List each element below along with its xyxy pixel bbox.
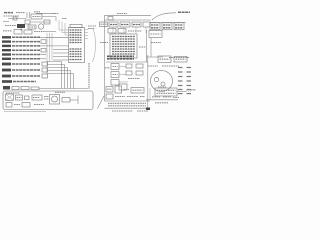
- signal label row 7: [2, 62, 48, 66]
- wire: [36, 12, 56, 14]
- wire: [149, 88, 151, 100]
- block U5: [24, 30, 32, 34]
- dense row under controller: [107, 56, 134, 59]
- label blob top: [34, 11, 40, 13]
- bus wires to MCU: [46, 37, 69, 60]
- signal label row 3: [2, 45, 46, 47]
- right vertical border: [147, 55, 149, 108]
- right block A: [149, 31, 162, 38]
- bottom border: [104, 107, 150, 109]
- top small box pair 2: [174, 57, 187, 63]
- terminal pair row 7: [178, 93, 191, 95]
- terminal strip above MCU: [70, 24, 82, 27]
- text rows lower right c: [173, 97, 179, 99]
- signal label row 9: [2, 74, 48, 78]
- bottom row marks: [124, 89, 130, 91]
- wire: [77, 96, 79, 105]
- text row A: [148, 65, 158, 67]
- wire: [42, 17, 56, 21]
- wire with inline part: [8, 17, 26, 20]
- text row in PSU: [6, 92, 20, 94]
- MCU right pin stubs: [85, 30, 89, 39]
- figure label: [4, 13, 26, 16]
- label bottom right: [155, 102, 168, 104]
- end blob: [146, 108, 150, 111]
- signal label row 2: [2, 40, 46, 44]
- tick box: [108, 17, 113, 21]
- top small box pair 1: [158, 56, 171, 63]
- text under wire row1: [108, 102, 146, 104]
- compressor M: [151, 71, 173, 92]
- top component row box 2: [120, 22, 130, 27]
- block U10: [32, 95, 42, 100]
- label L30: [105, 67, 110, 69]
- dashed stub: [186, 91, 191, 93]
- wire: [44, 31, 56, 33]
- text marks: [34, 104, 44, 106]
- block L10: [6, 103, 12, 108]
- signal label row 1: [2, 36, 46, 38]
- vertical wire mid: [146, 30, 148, 62]
- caption: [112, 110, 133, 112]
- text rows lower right a: [152, 96, 160, 98]
- top right box 3: [174, 23, 184, 30]
- top component row box 4: [143, 22, 150, 27]
- module box: [155, 88, 177, 96]
- bus elbow 1: [47, 62, 62, 89]
- PSU enclosure: [3, 91, 93, 110]
- signal label row 8: [2, 68, 48, 72]
- label right edge: [187, 89, 197, 91]
- terminal pair row 2: [178, 71, 191, 73]
- terminal pair row 1: [178, 67, 191, 69]
- brace curve right of MCU: [93, 28, 96, 62]
- bus elbow 2: [47, 65, 65, 89]
- terminal row above PSU: [3, 86, 88, 90]
- bridge rectifier BR1: [6, 94, 14, 101]
- text right mid: [169, 57, 189, 59]
- top component row box 1: [109, 22, 118, 27]
- relay box 1: [111, 64, 119, 70]
- drop wires: [113, 27, 146, 33]
- small box lower: [119, 84, 127, 90]
- main controller box: [110, 34, 137, 58]
- block T1: [16, 95, 23, 100]
- dark block U3: [17, 24, 25, 31]
- outdoor unit left border: [103, 16, 105, 101]
- vertical label column: [88, 63, 90, 89]
- second row box 2: [118, 29, 126, 34]
- bottom row2 marks c: [140, 96, 145, 98]
- wire: [146, 99, 178, 101]
- relay box 3: [111, 80, 119, 86]
- cluster box d: [136, 71, 143, 75]
- caption segment 2: [137, 110, 148, 112]
- capacitor block C1: [25, 20, 30, 24]
- terminal pair row 6: [178, 89, 191, 91]
- wire: [150, 38, 152, 57]
- fan block with motor: [50, 95, 60, 105]
- text row: [5, 25, 16, 27]
- leader label 100: [178, 11, 190, 13]
- text marks: [44, 97, 49, 100]
- text row: [34, 31, 44, 33]
- terminal pair row 5: [178, 85, 191, 87]
- capacitor C10: [25, 96, 30, 100]
- wire across top right: [150, 22, 186, 24]
- caption line under PSU: [4, 111, 46, 113]
- wire: [104, 100, 150, 102]
- bottom row2 marks a: [115, 96, 125, 98]
- wires to MCU top: [59, 20, 69, 35]
- text rows lower right b: [163, 96, 171, 98]
- signal label row 5: [2, 53, 46, 55]
- top right box 1: [150, 23, 160, 30]
- text marks: [14, 104, 20, 106]
- mid horizontal wire: [106, 61, 148, 63]
- bottom row2 box 1: [106, 94, 113, 99]
- small blob: [62, 18, 67, 20]
- label under block A: [151, 42, 161, 44]
- bottom row box 2: [115, 86, 122, 93]
- crystal oscillator X1: [31, 14, 42, 19]
- leader curve: [152, 13, 176, 20]
- label row left: [3, 30, 12, 32]
- link wires: [119, 67, 128, 83]
- bottom row2 marks b: [127, 96, 138, 98]
- MCU U1: [69, 28, 85, 63]
- outdoor unit inner top wire: [104, 19, 151, 21]
- label L50: [100, 42, 108, 44]
- small blob: [52, 13, 59, 15]
- bus elbow 3: [47, 68, 68, 89]
- relay box 2: [111, 72, 119, 78]
- label mid: [139, 46, 146, 48]
- wire: [30, 21, 50, 23]
- cluster box a: [126, 64, 132, 68]
- signal label row 10: [2, 80, 36, 83]
- bottom row box 1: [106, 87, 113, 93]
- block Q10: [62, 98, 70, 103]
- block IC2: [28, 25, 36, 29]
- right unit label blob: [117, 13, 127, 15]
- vertical bus bundle: [47, 33, 52, 74]
- text under wire row2: [108, 105, 146, 107]
- wire right: [177, 91, 186, 93]
- wire stub: [3, 21, 9, 23]
- cluster box c: [126, 71, 132, 75]
- wire: [146, 56, 163, 58]
- block C11: [22, 103, 30, 108]
- bus elbow 4: [47, 71, 71, 89]
- leader diagonal: [97, 96, 104, 109]
- text row B: [162, 65, 179, 67]
- cluster text: [128, 78, 140, 80]
- second row box 1: [108, 29, 116, 34]
- small blob right of left unit: [88, 26, 96, 29]
- terminal pair row 4: [178, 80, 191, 82]
- top component row box 3: [132, 22, 141, 27]
- cluster box b: [136, 64, 143, 68]
- terminal pair row 3: [178, 76, 191, 78]
- block D1: [44, 20, 50, 24]
- block U4: [14, 30, 22, 35]
- second row text: [128, 30, 142, 32]
- signal label row 4: [2, 48, 46, 52]
- relay K1: [38, 24, 43, 29]
- signal label row 6: [2, 58, 46, 60]
- label box left: [100, 22, 108, 27]
- bus elbow 5: [47, 74, 74, 89]
- outdoor unit top border: [104, 15, 151, 17]
- top right box 2: [162, 23, 172, 30]
- label above fan block: [55, 91, 65, 93]
- connector pins J1: [27, 12, 30, 18]
- bottom row box 3: [131, 88, 144, 94]
- wire: [70, 99, 78, 101]
